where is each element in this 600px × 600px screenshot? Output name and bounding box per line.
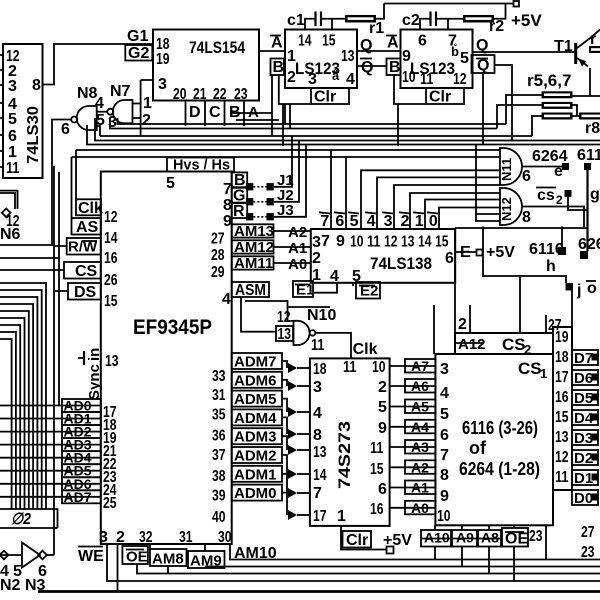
wire A3 row: [390, 439, 436, 455]
svg-text:AM10: AM10: [234, 545, 277, 562]
svg-text:6264 (1-28): 6264 (1-28): [459, 459, 540, 479]
AM8 box: [150, 549, 187, 568]
wire AS feed from 138 out 6: [72, 157, 501, 229]
svg-text:28: 28: [211, 247, 225, 264]
pin 6 E +5V terminal: [455, 244, 515, 261]
svg-text:3: 3: [8, 78, 17, 95]
svg-text:18: 18: [555, 349, 569, 366]
svg-text:CS: CS: [502, 335, 526, 354]
pin D2 box: [572, 450, 599, 467]
svg-text:40: 40: [212, 509, 226, 526]
svg-text:T1: T1: [554, 38, 573, 55]
svg-text:Clk: Clk: [78, 200, 103, 217]
wire A7 row: [390, 358, 436, 374]
node 6264 lower terminal: [578, 236, 600, 259]
svg-text:D7: D7: [574, 350, 593, 367]
svg-text:13: 13: [278, 326, 292, 343]
svg-text:2: 2: [556, 193, 563, 207]
svg-text:6: 6: [8, 128, 17, 145]
pin ADM4 box and arrow: [212, 409, 310, 444]
svg-text:9: 9: [378, 420, 387, 437]
svg-text:A9: A9: [456, 530, 474, 546]
AM9 box: [188, 551, 225, 570]
svg-text:D5: D5: [574, 390, 593, 407]
svg-text:+5V: +5V: [511, 11, 542, 30]
svg-text:2: 2: [524, 342, 531, 357]
pin AM11 box: [211, 255, 274, 281]
svg-text:e: e: [554, 163, 563, 180]
wire Q1 to A2 input: [357, 50, 401, 52]
svg-text:2: 2: [287, 69, 296, 86]
svg-text:A4: A4: [411, 419, 429, 435]
svg-text:7: 7: [313, 485, 322, 502]
svg-text:15: 15: [435, 234, 449, 251]
svg-text:CS: CS: [518, 359, 542, 378]
svg-text:OE: OE: [505, 531, 528, 548]
svg-text:D: D: [189, 104, 201, 121]
svg-text:D0: D0: [574, 490, 593, 507]
svg-text:6: 6: [61, 121, 70, 138]
A12 CS2 box: [455, 316, 553, 357]
node j terminal: [483, 227, 597, 300]
pin AD5 row: [0, 463, 117, 486]
svg-text:3: 3: [312, 234, 321, 251]
svg-text:6: 6: [378, 481, 387, 498]
svg-text:Clk: Clk: [353, 341, 378, 358]
svg-text:D2: D2: [574, 450, 593, 467]
wire band to N12 input d: [476, 145, 500, 222]
svg-text:29: 29: [211, 264, 225, 281]
svg-text:DS: DS: [74, 284, 97, 301]
spiral bus wire 2: [0, 290, 42, 509]
svg-text:74LS154: 74LS154: [189, 38, 245, 57]
svg-text:ADM3: ADM3: [234, 429, 277, 446]
svg-text:6116: 6116: [577, 147, 600, 164]
wire band line 4: [95, 118, 600, 141]
left bus vertical x59: [0, 172, 59, 406]
wire r1 to +5V rail: [376, 4, 384, 19]
svg-text:15: 15: [555, 409, 569, 426]
svg-text:7: 7: [440, 447, 449, 464]
svg-text:A12: A12: [458, 336, 486, 353]
pin WE label: [78, 547, 104, 566]
svg-text:ADM2: ADM2: [234, 448, 277, 465]
svg-text:Sync: Sync: [86, 364, 103, 400]
svg-text:19: 19: [156, 51, 170, 68]
spiral bus wire 4: [0, 304, 33, 509]
Clr box 74S273 and +5V: [341, 526, 412, 554]
wire Qbar2 branch down to band: [482, 73, 484, 145]
wire pin8 to G1 of 74LS154: [43, 44, 154, 85]
svg-text:A10: A10: [424, 530, 450, 546]
gate N7 (NAND, mirrored left-facing): [107, 83, 152, 131]
svg-text:8: 8: [440, 467, 449, 484]
wire 138 out 5 to N11: [361, 170, 500, 229]
svg-text:23: 23: [234, 86, 248, 103]
svg-text:o: o: [587, 280, 597, 297]
wire band line 1: [118, 95, 542, 124]
svg-text:14: 14: [418, 234, 432, 251]
svg-text:N10: N10: [307, 307, 336, 324]
wire N10 output to 74S273 Clk: [315, 333, 351, 359]
pin ADM0 box and arrow: [212, 485, 310, 526]
svg-text:3: 3: [99, 529, 108, 546]
svg-text:8: 8: [223, 197, 232, 214]
node 6116 h terminal: [529, 227, 566, 276]
pin D1 box: [572, 470, 599, 487]
svg-text:r8: r8: [585, 120, 600, 137]
svg-text:N6: N6: [0, 226, 21, 243]
wire 27 net at RAM top: [553, 291, 572, 328]
svg-text:c1: c1: [287, 12, 305, 29]
svg-text:11: 11: [343, 359, 357, 376]
wire band line 5: [87, 125, 600, 145]
svg-text:D4: D4: [574, 410, 594, 427]
svg-text:AD7: AD7: [64, 489, 92, 505]
gate N12 (AND, right-facing): [499, 188, 531, 226]
transistor T1: [554, 30, 600, 97]
svg-text:A1: A1: [288, 240, 307, 257]
svg-text:1: 1: [143, 95, 152, 112]
svg-text:3: 3: [158, 76, 167, 93]
wire AM9 net: [205, 544, 600, 568]
svg-text:3: 3: [440, 361, 449, 378]
svg-text:16: 16: [555, 389, 569, 406]
svg-text:Clr: Clr: [429, 89, 451, 106]
svg-text:B: B: [273, 59, 285, 76]
svg-text:AM11: AM11: [234, 255, 273, 272]
wire A4 row: [390, 419, 436, 435]
svg-text:b̊: b̊: [451, 44, 459, 59]
jumper J1: [246, 136, 294, 190]
svg-text:10: 10: [402, 69, 416, 86]
wire 138 out 3 to N11: [394, 185, 500, 229]
resistor r2: [463, 15, 504, 35]
svg-text:6: 6: [440, 427, 449, 444]
svg-text:35: 35: [212, 407, 226, 424]
spiral bus wire 6: [0, 318, 25, 509]
pin AD4 row: [0, 450, 117, 473]
svg-text:G1: G1: [127, 28, 148, 45]
svg-text:ADM7: ADM7: [234, 354, 277, 371]
svg-text:5: 5: [350, 213, 359, 230]
svg-text:11: 11: [420, 71, 434, 88]
wire N8 pin5 to band: [97, 126, 100, 136]
pin AD1 row: [0, 411, 117, 435]
svg-text:2: 2: [142, 112, 151, 129]
wire B down to band: [271, 75, 273, 136]
svg-text:31: 31: [212, 387, 226, 404]
EF9345P bottom pins: [99, 529, 232, 546]
pin AD6 row: [0, 476, 117, 499]
svg-text:∅2: ∅2: [11, 511, 31, 528]
svg-text:2: 2: [312, 250, 321, 267]
wire 138 out 4 to N11: [377, 177, 500, 229]
node Abar input label (LS123 #2): [386, 35, 399, 52]
wire stub under LS123 pair A: [230, 112, 272, 114]
svg-text:R: R: [233, 203, 245, 220]
svg-text:13: 13: [105, 353, 119, 370]
svg-text:of: of: [469, 438, 487, 458]
svg-text:6116 (3-26): 6116 (3-26): [462, 418, 538, 438]
R/W label box: [67, 238, 118, 267]
Clk label box: [76, 199, 118, 226]
138 enable E1 box: [293, 281, 314, 299]
pin ADM7 box and arrow: [212, 353, 310, 385]
wire WE net: [107, 544, 600, 581]
svg-text:9: 9: [440, 488, 449, 505]
IC U2 74LS154: [153, 30, 259, 104]
svg-text:12: 12: [453, 71, 467, 88]
spiral bus wire 8: [0, 332, 16, 509]
wire AM8 net: [150, 544, 168, 574]
svg-text:13: 13: [401, 234, 415, 251]
svg-text:r: r: [590, 31, 596, 48]
pin ASM box: [222, 282, 269, 308]
resistor r1: [345, 15, 384, 37]
svg-text:1: 1: [287, 48, 296, 65]
wire N8 output to left (thick): [0, 120, 71, 246]
wire N3 out up left bus: [47, 554, 54, 556]
svg-text:E: E: [460, 244, 471, 261]
svg-text:12: 12: [384, 234, 398, 251]
svg-text:12: 12: [104, 209, 118, 226]
IC U5 EF9345P: [101, 172, 232, 545]
capacitor c2: [402, 12, 463, 30]
gate N10 (NAND right-facing) with 13 box: [276, 307, 336, 354]
svg-text:6: 6: [335, 213, 344, 230]
pin D6 box: [572, 370, 599, 387]
svg-text:26: 26: [104, 272, 118, 289]
svg-text:17: 17: [555, 369, 569, 386]
pin D7 box: [572, 350, 599, 367]
wire RAM pin23 to bus: [545, 525, 547, 559]
svg-text:10: 10: [350, 234, 364, 251]
svg-text:in: in: [86, 348, 103, 361]
svg-text:2: 2: [458, 316, 467, 333]
resistor r7: [542, 113, 573, 120]
svg-text:4: 4: [313, 405, 322, 422]
svg-text:A2: A2: [288, 224, 307, 241]
DS label box: [68, 283, 118, 310]
svg-text:19: 19: [555, 329, 569, 346]
node B input box (LS123 #1): [271, 59, 285, 77]
svg-text:4: 4: [95, 95, 104, 112]
wire ASM to N10 pin13: [241, 297, 276, 332]
left bus vertical x54: [0, 166, 54, 555]
svg-text:c2: c2: [402, 12, 420, 29]
resistor r8: [579, 113, 600, 138]
svg-text:A8: A8: [481, 530, 499, 546]
svg-text:15: 15: [104, 293, 118, 310]
spiral bus wire 9: [0, 339, 12, 509]
svg-text:6: 6: [445, 250, 454, 267]
svg-text:4: 4: [367, 213, 376, 230]
jumper J2: [246, 141, 299, 206]
pin ADM3 box and arrow: [212, 428, 310, 464]
gate N8 (NAND, mirrored left-facing): [61, 85, 105, 138]
svg-text:r5,6,7: r5,6,7: [527, 71, 571, 90]
node Qbar boxed label (LS123 #2): [472, 55, 495, 74]
svg-text:6264: 6264: [578, 236, 600, 253]
svg-text:18: 18: [313, 361, 327, 378]
OE box (EF9345): [122, 546, 147, 566]
svg-text:23: 23: [529, 528, 543, 545]
svg-text:17: 17: [313, 508, 327, 525]
svg-text:ADM0: ADM0: [234, 485, 277, 502]
svg-text:A5: A5: [411, 399, 429, 415]
svg-text:13: 13: [555, 429, 569, 446]
svg-text:9: 9: [223, 213, 232, 230]
wire r6 r7 to r8: [573, 105, 580, 116]
Hvs/Hs box: [166, 157, 234, 193]
IC U6 74LS138: [311, 229, 455, 285]
pin AD0 row: [0, 398, 117, 422]
inverter N3: [0, 543, 47, 595]
node B input box (LS123 #2): [387, 59, 401, 77]
svg-text:N11: N11: [499, 158, 514, 181]
svg-text:ADM4: ADM4: [234, 410, 277, 427]
svg-text:0: 0: [429, 213, 438, 230]
phi2 label and lines: [0, 509, 58, 528]
IC U7 74S273: [310, 358, 390, 526]
svg-text:EF9345P: EF9345P: [133, 316, 212, 339]
wire E1 E2 pins 4 5: [313, 283, 353, 293]
svg-text:Q: Q: [477, 57, 489, 74]
svg-text:A2: A2: [411, 459, 429, 475]
jumper J3: [246, 145, 306, 221]
svg-text:13: 13: [341, 48, 355, 65]
svg-text:+5V: +5V: [486, 244, 515, 261]
wire AM10 net: [230, 544, 600, 562]
wires into CS2 box: [470, 276, 546, 333]
svg-text:3: 3: [384, 213, 393, 230]
RAM bottom A10 A9 A8 boxes: [421, 530, 501, 547]
wire 138 out 0 to N12: [439, 208, 500, 230]
IC U4 LS123 second monostable: [401, 30, 473, 89]
svg-text:g: g: [590, 186, 600, 203]
wire Q2 to T1 base and r5: [473, 51, 578, 53]
svg-text:G2: G2: [128, 45, 149, 62]
wire A2 row: [390, 459, 436, 475]
svg-text:N7: N7: [110, 83, 131, 100]
svg-text:15: 15: [322, 33, 336, 50]
svg-text:27: 27: [581, 524, 595, 541]
svg-text:5: 5: [166, 175, 175, 192]
svg-text:A3: A3: [411, 439, 429, 455]
Syncin pin 13: [78, 348, 119, 400]
svg-text:AS: AS: [76, 219, 99, 236]
svg-text:15: 15: [370, 461, 384, 478]
svg-text:8: 8: [522, 209, 531, 226]
svg-text:30: 30: [218, 529, 232, 546]
IC U1 74LS30: [3, 44, 43, 178]
svg-text:5: 5: [13, 563, 22, 580]
wire Clr net (LS123 #2): [394, 75, 426, 146]
node B output box: [223, 172, 247, 198]
svg-text:Clr: Clr: [346, 532, 368, 549]
svg-text:12: 12: [555, 449, 569, 466]
svg-text:5: 5: [378, 399, 387, 416]
svg-text:11: 11: [6, 160, 20, 177]
+5V rail top: [384, 1, 542, 30]
pin ADM1 box and arrow: [212, 466, 310, 505]
svg-text:B: B: [234, 172, 246, 189]
wire 138 out 1 to N12: [425, 200, 500, 230]
svg-text:21: 21: [193, 86, 207, 103]
pin ADM2 box and arrow: [212, 447, 310, 485]
svg-text:16: 16: [370, 501, 384, 518]
svg-text:8: 8: [313, 427, 322, 444]
svg-text:11: 11: [370, 440, 384, 457]
wire N7 inputs to 74LS154 pin3: [133, 80, 154, 136]
wire A1 row: [390, 480, 436, 496]
resistor r5: [542, 91, 573, 98]
wire N12 output bus: [434, 207, 588, 355]
wire Clr net (LS123 #1): [279, 75, 311, 146]
svg-text:r2: r2: [489, 18, 504, 35]
svg-text:ADM1: ADM1: [234, 466, 277, 483]
svg-text:11: 11: [311, 337, 325, 354]
svg-text:ADM5: ADM5: [234, 391, 277, 408]
pin AD2 row: [0, 424, 117, 447]
svg-text:16: 16: [104, 250, 118, 267]
svg-text:11: 11: [555, 469, 569, 486]
wire AM11 to 138 A0: [274, 256, 311, 273]
svg-text:G: G: [233, 188, 245, 205]
svg-text:10: 10: [372, 359, 386, 376]
thin double corner near N6: [0, 191, 18, 209]
svg-text:å: å: [332, 68, 340, 83]
svg-text:7: 7: [320, 213, 329, 230]
spiral bus wire 3: [0, 297, 37, 509]
svg-text:D1: D1: [574, 470, 593, 487]
IC U8 RAM 6116/6264: [435, 354, 553, 545]
AS label box: [72, 218, 118, 247]
svg-text:5: 5: [440, 406, 449, 423]
svg-text:AM13: AM13: [234, 223, 274, 240]
svg-text:WE: WE: [78, 548, 104, 565]
svg-text:r1: r1: [369, 20, 384, 37]
svg-text:A7: A7: [411, 358, 429, 374]
svg-text:23: 23: [581, 544, 595, 561]
wire A5 row: [390, 399, 436, 415]
wire E1 to N10 pin12: [245, 301, 330, 321]
138 output labels 7..0 with overlines: [319, 212, 438, 230]
svg-text:27: 27: [211, 231, 225, 248]
svg-text:14: 14: [313, 467, 327, 484]
wires RAM bottom to bus: [435, 525, 514, 530]
svg-text:1: 1: [8, 144, 17, 161]
svg-text:8: 8: [32, 77, 41, 94]
svg-text:CS: CS: [75, 263, 98, 280]
svg-text:D3: D3: [574, 430, 593, 447]
svg-text:4: 4: [440, 385, 449, 402]
svg-text:7: 7: [223, 181, 232, 198]
pin D4 box: [572, 410, 599, 427]
pin AM12 box: [211, 239, 274, 264]
wire N7 output to N8 input: [97, 111, 108, 113]
svg-text:11: 11: [367, 234, 381, 251]
svg-text:3: 3: [313, 379, 322, 396]
pin AD7 row: [0, 489, 117, 512]
svg-text:D6: D6: [574, 370, 593, 387]
svg-text:22: 22: [213, 86, 227, 103]
svg-text:j: j: [576, 282, 581, 299]
74LS154 bottom pin stubs D C B A: [186, 101, 245, 127]
pin AD3 row: [0, 437, 117, 460]
pin D5 box: [572, 390, 599, 407]
